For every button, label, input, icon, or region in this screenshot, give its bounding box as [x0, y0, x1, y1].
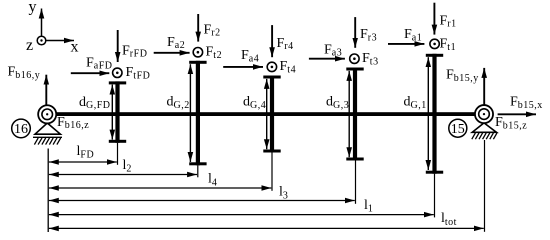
svg-text:Fb16,z: Fb16,z [57, 115, 89, 131]
gear 1 body [426, 54, 443, 174]
force F_a1 arrow [388, 43, 424, 45]
svg-text:Fr4: Fr4 [277, 36, 294, 52]
svg-text:Ft3: Ft3 [362, 51, 379, 67]
svg-text:dG,2: dG,2 [167, 95, 190, 111]
shaft [47, 112, 484, 116]
reference extension line left [47, 149, 49, 233]
svg-text:l2: l2 [123, 158, 132, 175]
force F_t2 circle [193, 48, 202, 57]
force F_rFD arrow [117, 30, 119, 62]
svg-text:Fa3: Fa3 [324, 42, 342, 58]
gear 3 body [346, 68, 363, 161]
svg-text:dG,1: dG,1 [404, 95, 427, 111]
force F_t3 circle [350, 54, 359, 63]
bearing 15 pivot circle [475, 105, 493, 123]
svg-text:16: 16 [14, 122, 28, 137]
svg-text:FtFD: FtFD [126, 65, 151, 81]
dimension l_1 [49, 214, 434, 216]
svg-text:dG,3: dG,3 [326, 95, 349, 111]
force F_b15,x arrow [498, 113, 536, 115]
dimension l_4 [49, 187, 271, 189]
extension line gear 1 [434, 174, 436, 218]
svg-text:dG,FD: dG,FD [79, 95, 111, 111]
extension line gear 2 [197, 165, 199, 177]
force F_a2 arrow [154, 52, 190, 54]
svg-text:l1: l1 [364, 198, 373, 215]
force F_a3 arrow [309, 58, 345, 60]
bearing 15 support [472, 123, 497, 139]
force F_aFD arrow [71, 72, 110, 74]
node 15 [449, 119, 467, 137]
svg-text:Fb15,x: Fb15,x [510, 95, 543, 111]
svg-text:Ft4: Ft4 [280, 59, 297, 75]
force F_r4 arrow [271, 25, 273, 57]
svg-text:Fr2: Fr2 [204, 22, 221, 38]
svg-text:FaFD: FaFD [86, 55, 113, 71]
dimension d_G,1 arrow [427, 57, 429, 170]
svg-text:Fb16,y: Fb16,y [8, 65, 41, 81]
svg-text:z: z [26, 37, 33, 54]
force F_r2 arrow [197, 14, 199, 42]
svg-text:Fa4: Fa4 [241, 48, 259, 64]
dimension d_G,4 arrow [266, 79, 268, 149]
bearing 16 pivot circle [38, 105, 56, 123]
dimension l_2 [49, 174, 197, 176]
svg-text:y: y [29, 0, 37, 15]
dimension l_FD [49, 161, 117, 163]
svg-text:l4: l4 [208, 172, 217, 189]
bearing 16 support [33, 123, 62, 145]
force F_r3 arrow [354, 17, 356, 48]
svg-text:dG,4: dG,4 [243, 95, 266, 111]
svg-text:Fa2: Fa2 [167, 35, 185, 51]
axis x arrow [46, 40, 74, 42]
svg-text:Fb15,y: Fb15,y [446, 68, 479, 84]
axis y arrow [41, 9, 43, 37]
svg-text:x: x [71, 38, 79, 55]
gear 2 body [189, 61, 206, 166]
extension line bearing 15 [484, 140, 486, 232]
svg-text:15: 15 [451, 122, 465, 137]
svg-text:ltot: ltot [441, 211, 457, 228]
svg-text:FrFD: FrFD [122, 43, 147, 59]
svg-text:l3: l3 [279, 185, 288, 202]
dimension l_tot [49, 227, 484, 229]
force F_r1 arrow [433, 3, 435, 35]
dimension d_G,FD arrow [111, 85, 113, 140]
coordinate system origin circle [37, 36, 46, 45]
force F_b16,y arrow [45, 75, 47, 106]
force F_t4 circle [267, 62, 276, 71]
svg-text:Fb15,z: Fb15,z [495, 115, 527, 131]
force F_tFD circle [113, 68, 122, 77]
svg-text:lFD: lFD [77, 144, 95, 161]
dimension d_G,3 arrow [348, 71, 350, 157]
dimension l_3 [49, 200, 355, 202]
svg-text:Fr1: Fr1 [440, 13, 457, 29]
force F_t1 circle [430, 39, 439, 48]
gear 4 body [263, 76, 280, 153]
svg-text:Ft1: Ft1 [440, 37, 457, 53]
gear FD body [109, 81, 126, 142]
force F_b15,y arrow [483, 68, 485, 105]
svg-text:Fa1: Fa1 [404, 27, 422, 43]
svg-text:Ft2: Ft2 [206, 45, 223, 61]
svg-text:Fr3: Fr3 [360, 27, 377, 43]
node 16 [12, 119, 31, 138]
extension line gear 3 [355, 161, 357, 204]
extension line gear 4 [271, 153, 273, 191]
extension line gear FD [117, 143, 119, 165]
dimension d_G,2 arrow [189, 64, 191, 162]
force F_a4 arrow [223, 66, 263, 68]
